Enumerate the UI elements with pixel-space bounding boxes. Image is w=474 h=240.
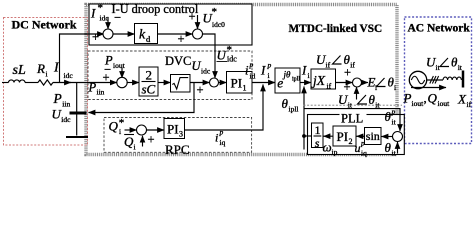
- svg-text:i: i: [394, 83, 396, 92]
- svg-text:iout: iout: [113, 61, 126, 70]
- svg-text:ω: ω: [323, 140, 332, 155]
- droop summing node 1: [103, 29, 113, 39]
- svg-text:p: p: [360, 139, 365, 148]
- svg-text:θ: θ: [385, 109, 392, 124]
- wire to PI1: [219, 82, 227, 84]
- wire RPC node to PI3: [147, 129, 165, 131]
- RPC dashed box: [104, 118, 252, 153]
- wire sqrt to DVC node 2: [190, 82, 210, 84]
- svg-text:idc0: idc0: [212, 20, 225, 29]
- svg-text:i: i: [308, 71, 310, 80]
- svg-text:RPC: RPC: [165, 142, 190, 157]
- block e^jtheta_ipll: [275, 68, 300, 93]
- wire e-box to jX: [300, 82, 311, 84]
- capacitor wire: [76, 83, 78, 136]
- wire kd to node2: [158, 33, 193, 35]
- wire U_it input up to E node: [356, 87, 358, 100]
- svg-text:+: +: [103, 71, 110, 85]
- svg-text:1: 1: [243, 84, 247, 93]
- svg-text:θ: θ: [282, 96, 289, 111]
- svg-text:I-U droop control: I-U droop control: [112, 2, 199, 16]
- block kd: [135, 24, 158, 44]
- wire PI1 to e-box: [252, 82, 275, 84]
- svg-text:+: +: [92, 30, 99, 44]
- svg-text:3: 3: [179, 130, 183, 139]
- wire to 2/sC: [127, 82, 140, 84]
- svg-text:i: i: [215, 131, 218, 145]
- wire Qbar input up: [142, 136, 144, 147]
- svg-text:ipll: ipll: [289, 105, 299, 114]
- wire jX to E node: [336, 82, 353, 84]
- svg-text:jX: jX: [311, 73, 326, 88]
- svg-text:idc: idc: [64, 71, 74, 80]
- wire node1 to kd: [113, 33, 135, 35]
- infinite bus bar: [462, 71, 465, 88]
- svg-text:DC Network: DC Network: [12, 18, 77, 32]
- wire theta_it input up: [397, 142, 399, 154]
- svg-text:iq: iq: [220, 138, 226, 147]
- svg-text:R: R: [36, 61, 45, 76]
- AC source circle: [409, 71, 426, 88]
- label PLL: [340, 111, 367, 123]
- svg-text:i: i: [134, 143, 136, 152]
- wire theta_ipll down stub: [303, 136, 305, 150]
- svg-text:sL: sL: [13, 63, 26, 78]
- PLL box: [308, 115, 405, 155]
- svg-text:p: p: [267, 61, 272, 70]
- svg-text:iin: iin: [97, 88, 105, 97]
- svg-text:*: *: [212, 6, 218, 18]
- svg-text:if: if: [350, 61, 355, 70]
- svg-text:1: 1: [315, 123, 321, 137]
- svg-text:P: P: [88, 81, 97, 95]
- block sqrt: [171, 75, 191, 93]
- svg-text:idc: idc: [100, 14, 110, 23]
- svg-text:u: u: [355, 141, 361, 155]
- RPC summing node: [137, 125, 147, 135]
- svg-text:I: I: [260, 63, 266, 78]
- svg-text:+: +: [178, 32, 185, 46]
- wire I*idc input: [107, 17, 109, 29]
- svg-text:+: +: [148, 133, 155, 147]
- svg-text:PLL: PLL: [341, 112, 363, 126]
- svg-text:p: p: [219, 128, 224, 137]
- block sin: [365, 128, 382, 145]
- wire Q* input: [125, 129, 137, 131]
- svg-text:jθ: jθ: [283, 70, 292, 80]
- power flow arrow: [411, 87, 446, 89]
- svg-text:AC Network: AC Network: [408, 23, 471, 35]
- DVC summing node 1: [117, 77, 127, 87]
- wire PLL node to sin: [382, 136, 393, 138]
- MTDC-linked VSC outer hatched box: [86, 5, 397, 155]
- AC Network blue dashed box: [405, 17, 472, 144]
- svg-text:I: I: [301, 63, 307, 78]
- three-phase slashes: [430, 76, 439, 84]
- svg-text:i: i: [46, 70, 48, 79]
- svg-text:i: i: [268, 71, 270, 80]
- wire theta_ipll up join: [303, 87, 305, 137]
- svg-text:p: p: [249, 60, 254, 69]
- svg-text:k: k: [139, 28, 146, 43]
- svg-text:+: +: [189, 10, 196, 24]
- block 2/sC: [139, 67, 158, 96]
- block 1/s: [312, 123, 324, 148]
- svg-text:I: I: [90, 6, 96, 21]
- inductor sL coil: [9, 80, 26, 83]
- wire E output: [362, 82, 369, 84]
- svg-text:s: s: [315, 136, 320, 150]
- wire between coil and resistor: [25, 82, 38, 84]
- PLL summing node: [393, 132, 403, 142]
- svg-text:ipll: ipll: [292, 77, 300, 83]
- svg-text:if: if: [326, 61, 331, 70]
- svg-text:i: i: [375, 83, 377, 92]
- node dot theta_ipll: [302, 134, 306, 138]
- wire theta_it^p from theta_ipll junction: [304, 109, 401, 131]
- wire AC line: [427, 79, 444, 81]
- svg-text:i: i: [119, 127, 121, 136]
- svg-text:if: if: [467, 100, 472, 109]
- svg-text:idc: idc: [227, 55, 237, 64]
- svg-text:P: P: [403, 91, 412, 106]
- wire PLL out stub: [304, 135, 312, 137]
- svg-text:U: U: [192, 59, 202, 73]
- resistor Ri zigzag: [38, 80, 53, 85]
- wire bus left stub: [2, 82, 9, 84]
- dashed guide line above PLL: [304, 104, 403, 106]
- block PI3: [164, 119, 185, 139]
- inductor X_if coil: [443, 77, 461, 80]
- svg-text:e: e: [277, 76, 283, 91]
- svg-text:θ: θ: [385, 140, 392, 155]
- DVC dashed box: [88, 51, 252, 100]
- svg-text:2: 2: [349, 137, 353, 146]
- DC Network red dashed box: [4, 18, 88, 146]
- DVC summing node 2: [210, 78, 219, 87]
- svg-text:DVC: DVC: [165, 54, 191, 68]
- svg-text:it: it: [436, 63, 441, 72]
- block jX_if: [311, 69, 336, 89]
- wire droop output down to DVC: [203, 34, 216, 78]
- svg-text:iout: iout: [438, 99, 451, 108]
- svg-text:iout: iout: [412, 99, 425, 108]
- capacitor bottom plate: [66, 136, 88, 138]
- svg-text:PI: PI: [231, 76, 243, 91]
- svg-text:PI: PI: [337, 129, 349, 144]
- svg-text:Q: Q: [124, 134, 134, 149]
- wire 2/sC to sqrt: [158, 82, 171, 84]
- svg-text:Q: Q: [428, 91, 438, 106]
- svg-text:if: if: [327, 82, 332, 91]
- wire P_iout input: [121, 68, 123, 79]
- svg-text:MTDC-linked VSC: MTDC-linked VSC: [289, 23, 383, 35]
- svg-text:id: id: [250, 72, 256, 81]
- wire PI3 output i_iq joins main: [185, 85, 264, 131]
- svg-text:idc: idc: [201, 67, 211, 76]
- svg-text:iin: iin: [62, 99, 70, 108]
- block PI1: [227, 72, 253, 94]
- svg-text:Q: Q: [109, 119, 119, 134]
- svg-text:ip: ip: [332, 148, 338, 157]
- capacitor top plate: [70, 112, 87, 115]
- svg-text:i: i: [245, 64, 249, 78]
- block PI2: [333, 126, 356, 146]
- svg-text:idc: idc: [61, 115, 71, 124]
- svg-text:p: p: [391, 107, 396, 116]
- wire sin to PI2: [357, 135, 365, 137]
- wire U_idc feedback to capacitor: [89, 83, 195, 113]
- svg-text:+: +: [344, 66, 351, 80]
- svg-text:−: −: [114, 11, 121, 25]
- wire PI2 to 1/s: [324, 135, 334, 137]
- svg-text:sin: sin: [366, 129, 380, 143]
- wire riser to droop control: [60, 34, 105, 83]
- svg-text:X: X: [457, 92, 467, 107]
- svg-text:*: *: [98, 2, 104, 14]
- svg-text:PI: PI: [167, 122, 179, 137]
- svg-text:2: 2: [146, 68, 153, 83]
- svg-text:,: ,: [424, 91, 427, 106]
- svg-text:P: P: [53, 91, 62, 106]
- wire bus into DVC summing node: [70, 82, 117, 84]
- wire U*idc0 input: [197, 15, 199, 29]
- droop summing node 2: [193, 29, 203, 39]
- svg-text:sC: sC: [142, 82, 156, 97]
- wire bus I_idc arrow: [53, 82, 71, 84]
- svg-text:+: +: [197, 83, 204, 97]
- I-U droop control box: [89, 4, 252, 45]
- svg-text:iq: iq: [361, 149, 367, 158]
- E summing node: [353, 78, 362, 87]
